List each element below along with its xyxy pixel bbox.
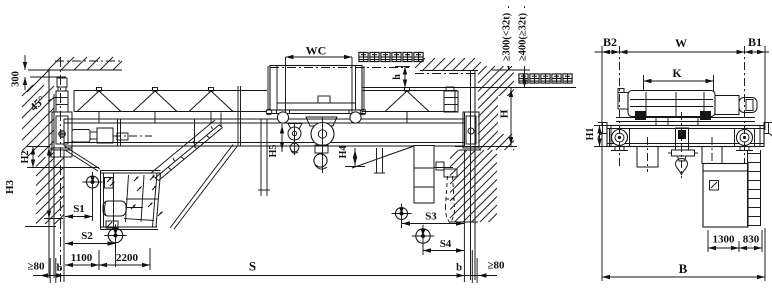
hoist gearbox <box>715 96 739 115</box>
trolley frame lines end view <box>616 117 755 119</box>
stair landing post <box>220 113 222 128</box>
hook position S2 <box>108 228 122 242</box>
left corbel hatching <box>36 157 64 224</box>
underslung diagonal <box>352 146 414 168</box>
cab roof <box>100 170 161 172</box>
left wheel assembly <box>52 112 72 150</box>
walkway line <box>74 111 267 113</box>
cab glass marks <box>107 178 112 183</box>
railing end posts <box>73 91 75 112</box>
svg-text:300: 300 <box>11 71 22 87</box>
indoor highest point line <box>362 87 576 89</box>
cab front slant <box>156 173 161 227</box>
svg-text:B: B <box>679 261 688 276</box>
svg-text:b: b <box>456 263 462 274</box>
railing brace triangle 1 <box>97 88 102 92</box>
svg-text:1300: 1300 <box>713 234 736 246</box>
ceiling hatching top-left <box>48 57 122 70</box>
runway rail right <box>740 147 749 151</box>
girder splice joint 1 <box>117 119 119 146</box>
wheel housing left <box>609 129 611 147</box>
dimension 300 <box>24 55 26 70</box>
svg-text:S4: S4 <box>440 238 452 250</box>
svg-text:S3: S3 <box>425 211 437 223</box>
crane wheel centerline left <box>619 46 621 167</box>
trolley wheel left <box>277 112 288 123</box>
hook sheave end view <box>676 128 689 150</box>
bottom extension lines right <box>471 250 473 283</box>
dimension B1 <box>745 50 753 54</box>
ceiling line right <box>420 70 478 72</box>
girder end extension line <box>63 150 65 282</box>
stairway stringers <box>155 125 219 178</box>
left buffer column <box>58 87 66 91</box>
railing brace triangle 3 <box>209 88 214 92</box>
cab end view <box>703 164 748 228</box>
trolley wheel right <box>350 112 361 123</box>
girder rail line 2 <box>64 122 465 124</box>
trolley wheel on rail left <box>635 111 646 120</box>
svg-text:H3: H3 <box>4 179 16 194</box>
svg-text:WC: WC <box>306 44 327 58</box>
dimension 1300 830 <box>708 247 762 249</box>
railing brace triangle 4 <box>405 88 410 92</box>
girder bottom flange <box>64 142 465 144</box>
girder section left <box>637 147 658 168</box>
crane wheel centerline right <box>744 46 746 167</box>
dimension WC <box>286 56 353 58</box>
festoon hanger 1 <box>260 119 262 196</box>
hoist rope centerline small <box>294 124 296 155</box>
dimension H <box>498 96 516 134</box>
svg-text:≥80: ≥80 <box>487 260 505 272</box>
ladder rungs <box>748 153 761 155</box>
left buffer end view <box>603 123 608 134</box>
right wheel assembly <box>463 112 479 148</box>
svg-text:1100: 1100 <box>71 252 93 264</box>
dimension h <box>395 66 410 68</box>
svg-text:830: 830 <box>743 234 760 246</box>
cab support brace left <box>65 147 100 170</box>
phantom hook dashed <box>446 176 448 206</box>
left runway beam <box>51 148 72 157</box>
dimension W <box>620 50 628 54</box>
svg-text:H5: H5 <box>268 145 279 158</box>
hook crossbar <box>672 150 695 156</box>
cab door edge <box>113 173 115 227</box>
cab window mullions <box>126 175 129 222</box>
cab door window <box>105 178 114 189</box>
svg-text:h: h <box>392 74 403 80</box>
dimension S2 <box>65 243 116 245</box>
main hook block <box>315 145 328 153</box>
hoist end position box <box>414 146 434 204</box>
girder top rail line <box>64 118 465 120</box>
svg-text:B1: B1 <box>748 35 762 49</box>
ceiling dash-dot line top-left <box>55 60 122 62</box>
dimension 1100 2200 <box>65 264 150 266</box>
hoist drum housing <box>628 91 715 117</box>
cab seat <box>103 201 126 216</box>
dimension S4 <box>423 250 464 252</box>
dimension B <box>602 276 765 278</box>
trolley wheel on rail right <box>700 111 711 120</box>
left wall lines <box>48 70 50 278</box>
dimension B2 <box>602 50 610 54</box>
crane travel drive machinery <box>72 130 90 143</box>
dimension S1 <box>65 216 93 218</box>
dimension H3 <box>47 148 51 156</box>
label indoor highest point <box>514 72 576 85</box>
hoist left bracket <box>618 93 628 110</box>
runway rail left <box>615 147 624 151</box>
right corbel bottom line <box>450 221 478 223</box>
svg-text:B2: B2 <box>603 35 617 49</box>
right wall lines <box>470 70 472 280</box>
ladder rails <box>747 150 749 226</box>
right buffer end view <box>764 123 769 134</box>
cab door lower panel <box>106 221 118 228</box>
hook pulley block small <box>288 124 302 130</box>
svg-text:H2: H2 <box>20 151 31 164</box>
cab window end view <box>710 181 719 191</box>
hoist motor <box>739 98 757 113</box>
end view top dimension line <box>595 51 770 53</box>
label outdoor highest point <box>359 52 423 61</box>
right buffer column <box>446 87 454 91</box>
wheel housing right <box>734 129 736 147</box>
girder section right <box>702 147 722 164</box>
trolley frame bottom <box>266 109 366 111</box>
dimension >=300(<32t) <box>508 6 510 70</box>
left rail centerline <box>60 57 62 282</box>
svg-text:S2: S2 <box>81 230 93 242</box>
girder left end line <box>63 119 65 146</box>
stair handrail <box>151 120 215 173</box>
right wall hatching upper <box>478 66 514 150</box>
svg-text:≥300(<32t): ≥300(<32t) <box>502 12 513 61</box>
end view extension lines top <box>601 46 603 126</box>
cab support brace right <box>170 145 233 229</box>
festoon hanger 2 <box>376 148 378 173</box>
hook pulley block main <box>306 117 337 126</box>
svg-text:S1: S1 <box>73 203 85 215</box>
dimension K <box>644 80 714 82</box>
hook position S4 <box>416 229 430 243</box>
left corbel bottom line <box>25 226 56 228</box>
svg-text:≥400(≥32t): ≥400(≥32t) <box>518 12 529 61</box>
walkway railing top line <box>74 90 267 92</box>
svg-text:W: W <box>675 36 687 50</box>
railing brace triangle 2 <box>153 88 158 92</box>
trolley body <box>270 66 362 111</box>
auxiliary hook <box>294 140 296 144</box>
hoist rope centerline main <box>322 117 324 173</box>
dimension >=400(>=32t) <box>524 6 526 88</box>
right girder end extension line <box>463 150 465 282</box>
svg-text:H4: H4 <box>338 146 349 159</box>
left wall hatching <box>22 85 54 157</box>
ceiling line left <box>28 69 122 71</box>
hook end view <box>678 156 687 161</box>
trolley buffers <box>266 109 272 115</box>
svg-text:2200: 2200 <box>116 252 139 264</box>
bottom extension lines left <box>49 258 51 283</box>
45 degree chamfer line <box>27 70 49 92</box>
trolley wheel brackets <box>276 110 278 114</box>
svg-text:H: H <box>499 109 511 118</box>
left rail end stop <box>57 78 67 87</box>
trolley wheel centerline left <box>285 57 287 117</box>
right wall corbel hatching <box>450 150 497 222</box>
girder splice joint 2 <box>194 119 196 146</box>
svg-text:K: K <box>672 66 682 80</box>
dimension H2 <box>32 147 34 168</box>
cab bottom <box>101 226 158 228</box>
hook position S1 <box>87 176 99 188</box>
ceiling line extension for 300 400 dims <box>492 69 530 71</box>
crane wheel left end view <box>612 130 628 146</box>
hook suspension bracket <box>434 167 453 169</box>
dimension H4 <box>354 148 356 167</box>
end carriage beam <box>607 126 764 147</box>
svg-text:H1: H1 <box>585 128 596 141</box>
stair rungs <box>155 178 159 181</box>
dimension S3 <box>402 223 464 225</box>
ceiling hatching right <box>415 58 481 71</box>
crane wheel right end view <box>737 130 753 146</box>
cab left wall <box>100 171 102 230</box>
svg-text:S: S <box>249 259 256 274</box>
svg-text:b: b <box>57 263 63 274</box>
hook position S3 <box>396 208 408 220</box>
dimension S bottom line <box>33 275 497 277</box>
crane highest point line left <box>30 76 66 78</box>
girder right end line <box>464 112 466 146</box>
dimension H1 <box>599 126 601 147</box>
festoon support post <box>237 86 239 146</box>
trolley wheel centerline right <box>351 57 353 117</box>
trolley body inner lines <box>276 66 278 110</box>
svg-text:≥80: ≥80 <box>27 261 45 273</box>
outdoor highest point dash-dot line <box>270 67 409 69</box>
dimension H5 <box>281 124 283 152</box>
